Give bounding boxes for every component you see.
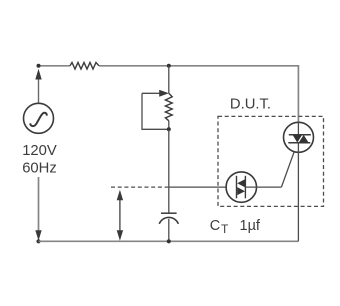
wire: middle branch down to capacitor	[168, 129, 170, 213]
wire: diac internal right lead	[245, 186, 281, 188]
triac right triangle (points up)	[299, 135, 309, 143]
node A (top-left junction dot)	[37, 64, 41, 68]
dashed box D.U.T.	[218, 116, 324, 206]
current arrow up (source to node)	[38, 79, 40, 103]
potentiometer bypass loop wire	[142, 93, 169, 129]
wire: middle branch from top node to potentiometer	[168, 66, 170, 94]
gate wire diagonal to triac	[281, 143, 297, 187]
diac lower triangle (points right)	[237, 187, 245, 195]
capacitor CT top plate	[161, 212, 177, 214]
voltage double arrow	[119, 197, 121, 233]
diac upper triangle (points left)	[237, 179, 245, 187]
diac left bar	[236, 176, 238, 199]
svg-text:D.U.T.: D.U.T.	[230, 97, 271, 113]
resistor R (series, top)	[70, 63, 99, 70]
svg-text:1µf: 1µf	[240, 218, 261, 234]
triac bottom bar	[288, 142, 310, 144]
node B (bottom-left junction dot)	[36, 239, 40, 243]
dashed measure line (capacitor voltage)	[111, 186, 168, 188]
svg-text:120V: 120V	[22, 143, 57, 159]
node D (pot bottom junction dot)	[167, 127, 171, 131]
diac right bar	[244, 176, 246, 199]
node E (capacitor bottom junction dot)	[167, 239, 171, 243]
ac source V1 circle	[24, 103, 54, 133]
capacitor CT curved plate	[159, 217, 178, 223]
node C (top-middle junction dot)	[167, 64, 171, 68]
wire: top rail right of resistor, corner, down to triac top	[99, 66, 298, 123]
triac top lead inside circle	[297, 122, 299, 134]
wire: capacitor node to diac	[169, 186, 237, 188]
triac left triangle (points down)	[293, 135, 303, 143]
potentiometer R2 (vertical zigzag)	[165, 93, 172, 121]
ac source sine symbol	[30, 113, 47, 126]
potentiometer wiper arrow	[142, 92, 160, 94]
svg-text:C: C	[210, 218, 220, 234]
wire: left rail below source (starts below labels)	[38, 177, 40, 232]
triac top bar	[289, 134, 311, 136]
svg-text:60Hz: 60Hz	[22, 160, 57, 176]
diac D1 circle	[226, 172, 256, 202]
current arrow down (into bottom node)	[35, 230, 41, 240]
wire: triac bottom to bottom rail	[297, 143, 299, 242]
wire: bottom rail	[39, 240, 299, 242]
wire: top rail from left node through to right corner and down to triac	[39, 65, 71, 67]
wire: zigzag bottom to node	[168, 121, 170, 130]
svg-text:T: T	[221, 222, 229, 236]
triac Q1 circle	[284, 122, 314, 152]
wire: capacitor to bottom node	[168, 219, 170, 242]
